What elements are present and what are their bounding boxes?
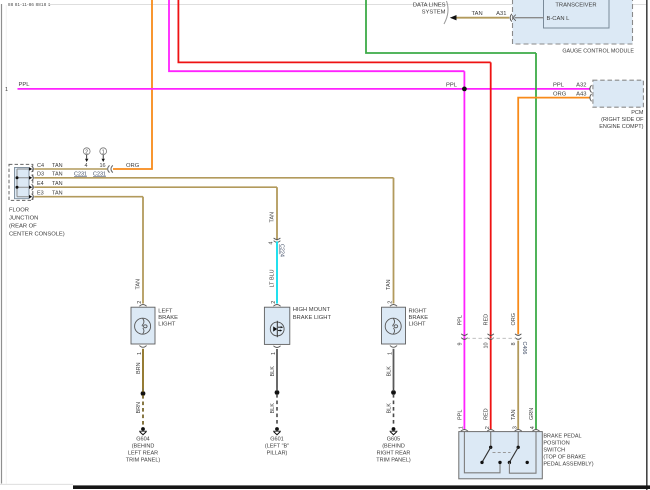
svg-text:RED: RED xyxy=(484,408,490,420)
svg-text:C4: C4 xyxy=(37,163,44,169)
svg-text:C231: C231 xyxy=(93,171,106,177)
svg-text:C231: C231 xyxy=(74,171,87,177)
svg-text:(REAR OF: (REAR OF xyxy=(9,224,37,230)
wire PPL from top xyxy=(169,0,464,71)
svg-text:A31: A31 xyxy=(496,11,506,17)
wire gray B-CAN L xyxy=(515,17,544,19)
connector C224 xyxy=(274,238,281,240)
svg-text:4: 4 xyxy=(268,242,274,245)
svg-text:3: 3 xyxy=(512,426,518,429)
svg-text:FLOOR: FLOOR xyxy=(9,208,29,214)
gauge control module box xyxy=(513,0,633,44)
wire PPL main horizontal xyxy=(18,88,590,90)
svg-text:8: 8 xyxy=(511,342,517,345)
svg-text:GRN: GRN xyxy=(529,408,535,420)
svg-text:2: 2 xyxy=(388,301,394,304)
svg-text:(BEHIND: (BEHIND xyxy=(382,444,405,450)
pin A31 connector xyxy=(510,14,512,22)
svg-text:BLK: BLK xyxy=(270,366,276,377)
pin D3 xyxy=(29,176,32,180)
svg-text:TAN: TAN xyxy=(52,172,63,178)
svg-text:DATA LINES: DATA LINES xyxy=(413,2,446,8)
svg-text:PCM: PCM xyxy=(631,110,644,116)
svg-text:D3: D3 xyxy=(37,172,44,178)
svg-text:PPL: PPL xyxy=(446,83,458,89)
svg-text:G601: G601 xyxy=(270,437,283,443)
svg-text:LEFT: LEFT xyxy=(158,308,173,314)
svg-text:PPL: PPL xyxy=(19,82,31,88)
svg-text:4: 4 xyxy=(530,426,536,429)
svg-text:BLK: BLK xyxy=(386,403,392,414)
switch interior xyxy=(464,432,500,473)
svg-text:TAN: TAN xyxy=(386,279,392,290)
pin A43 connector xyxy=(590,94,592,101)
wire GRN vertical to switch xyxy=(535,53,537,429)
svg-text:TRANSCEIVER: TRANSCEIVER xyxy=(555,2,596,8)
pin C4 xyxy=(29,167,32,171)
svg-text:PILLAR): PILLAR) xyxy=(267,451,288,457)
svg-text:POSITION: POSITION xyxy=(543,440,569,446)
svg-text:16: 16 xyxy=(99,163,105,169)
pin E4 xyxy=(29,185,32,189)
wire BLK dashed to ground xyxy=(276,388,278,427)
svg-text:TAN: TAN xyxy=(511,409,517,420)
svg-text:4: 4 xyxy=(84,163,87,169)
svg-text:E4: E4 xyxy=(37,181,44,187)
svg-text:BRAKE LIGHT: BRAKE LIGHT xyxy=(293,315,332,321)
pin 3 arc xyxy=(515,430,522,432)
svg-text:2: 2 xyxy=(271,301,277,304)
wire GRN from top xyxy=(366,0,536,53)
wire BLK below right light xyxy=(393,349,395,388)
svg-text:B-CAN L: B-CAN L xyxy=(547,16,571,22)
svg-text:BRN: BRN xyxy=(136,362,142,374)
svg-text:TAN: TAN xyxy=(52,181,63,187)
floor junction connector xyxy=(9,164,33,200)
node junction mid xyxy=(275,390,280,395)
svg-text:PPL: PPL xyxy=(553,83,565,89)
svg-text:ENGINE COMPT): ENGINE COMPT) xyxy=(599,124,643,130)
svg-text:BLK: BLK xyxy=(386,366,392,377)
svg-text:TAN: TAN xyxy=(52,163,63,169)
svg-text:BRAKE: BRAKE xyxy=(409,315,429,321)
svg-text:BRN: BRN xyxy=(136,402,142,414)
svg-text:SYSTEM: SYSTEM xyxy=(422,10,446,16)
wire TAN to gauge control module A31 xyxy=(456,17,509,19)
svg-text:TAN: TAN xyxy=(472,11,483,17)
arrow to data lines system xyxy=(450,15,457,20)
svg-text:G604: G604 xyxy=(136,437,149,443)
svg-text:JUNCTION: JUNCTION xyxy=(9,216,38,222)
wire TAN below C406 to switch xyxy=(517,341,519,430)
svg-text:1: 1 xyxy=(459,426,465,429)
pin 4 arc xyxy=(532,430,539,432)
svg-text:G605: G605 xyxy=(387,437,400,443)
svg-text:LEFT REAR: LEFT REAR xyxy=(128,451,158,457)
wire TAN D3 row xyxy=(34,177,393,179)
svg-text:2: 2 xyxy=(85,149,88,155)
ground G604 xyxy=(141,427,145,431)
switch S1 BRAKE PEDAL POSITION xyxy=(459,432,543,479)
svg-text:A32: A32 xyxy=(576,83,586,89)
svg-text:1: 1 xyxy=(102,149,105,155)
svg-text:E3: E3 xyxy=(37,191,44,197)
svg-text:LIGHT: LIGHT xyxy=(158,322,176,328)
wire RED vertical to switch xyxy=(490,62,492,429)
svg-text:9: 9 xyxy=(457,342,463,345)
PCM box xyxy=(593,80,644,107)
wire TAN E3 row xyxy=(34,196,143,198)
wire TAN E3 vertical to left brake light xyxy=(142,197,144,304)
svg-text:2: 2 xyxy=(137,301,143,304)
svg-text:ORG: ORG xyxy=(126,163,140,169)
svg-text:ORG: ORG xyxy=(511,313,517,326)
svg-text:CENTER CONSOLE): CENTER CONSOLE) xyxy=(9,232,65,238)
wire PPL vertical to switch xyxy=(463,71,465,429)
wire BRN dashed to ground xyxy=(142,389,144,427)
svg-text:TAN: TAN xyxy=(270,212,276,223)
svg-text:BRAKE PEDAL: BRAKE PEDAL xyxy=(543,433,581,439)
svg-text:1: 1 xyxy=(5,87,8,93)
node junction right xyxy=(391,390,396,395)
wire RED from top xyxy=(178,0,490,62)
wire TAN D3 vertical to right brake light xyxy=(393,178,395,304)
svg-text:TRIM PANEL): TRIM PANEL) xyxy=(376,458,411,464)
wire ORG vertical from top to C231 xyxy=(113,0,152,169)
svg-text:(RIGHT SIDE OF: (RIGHT SIDE OF xyxy=(601,117,644,123)
wire BRN below left light xyxy=(142,349,144,389)
svg-text:88 81-11-86 8818 1: 88 81-11-86 8818 1 xyxy=(8,2,51,7)
svg-text:LT BLU: LT BLU xyxy=(270,269,276,287)
svg-text:PPL: PPL xyxy=(457,315,463,325)
wire BLK below high mount light xyxy=(276,349,278,388)
svg-text:LIGHT: LIGHT xyxy=(409,322,427,328)
bracket xyxy=(444,1,448,24)
wire TAN E4 row xyxy=(34,186,277,188)
svg-text:C406: C406 xyxy=(521,342,527,355)
svg-text:SWITCH: SWITCH xyxy=(543,447,565,453)
svg-text:ORG: ORG xyxy=(553,91,567,97)
wire TAN C4 row xyxy=(34,168,107,170)
svg-text:(BEHIND: (BEHIND xyxy=(132,444,155,450)
svg-text:A43: A43 xyxy=(576,91,586,97)
node PPL junction xyxy=(462,87,467,92)
pin A32 connector xyxy=(590,85,592,92)
svg-text:TAN: TAN xyxy=(136,279,142,290)
ground G601 xyxy=(275,427,279,431)
svg-text:RIGHT: RIGHT xyxy=(409,308,427,314)
wire LT BLU to high mount light xyxy=(276,241,278,303)
svg-text:PEDAL ASSEMBLY): PEDAL ASSEMBLY) xyxy=(543,461,593,467)
svg-text:TRIM PANEL): TRIM PANEL) xyxy=(126,458,161,464)
callout 2 circled xyxy=(83,148,90,155)
callout 1 circled xyxy=(100,148,107,155)
svg-text:TAN: TAN xyxy=(52,191,63,197)
svg-text:RIGHT REAR: RIGHT REAR xyxy=(377,451,411,457)
svg-text:10: 10 xyxy=(484,342,490,348)
wire TAN E4 vertical to C224 xyxy=(276,187,278,240)
connector C231 symbols xyxy=(108,165,110,172)
pin E3 xyxy=(29,195,32,199)
svg-text:2: 2 xyxy=(485,426,491,429)
svg-text:RED: RED xyxy=(484,314,490,326)
svg-text:(LEFT "B": (LEFT "B" xyxy=(265,444,289,450)
node junction left xyxy=(141,391,146,396)
svg-text:PPL: PPL xyxy=(457,410,463,420)
svg-text:BRAKE: BRAKE xyxy=(158,315,178,321)
wire ORG from PCM A43 xyxy=(518,98,589,335)
C406 dashed link xyxy=(467,337,517,339)
svg-text:HIGH MOUNT: HIGH MOUNT xyxy=(293,307,331,313)
svg-text:BLK: BLK xyxy=(270,403,276,414)
svg-text:(TOP OF BRAKE: (TOP OF BRAKE xyxy=(543,454,586,460)
pin 2 arc xyxy=(487,430,494,432)
ground G605 xyxy=(392,427,396,431)
transceiver box U1 xyxy=(544,0,610,28)
wire BLK dashed to ground xyxy=(393,388,395,427)
svg-text:GAUGE CONTROL MODULE: GAUGE CONTROL MODULE xyxy=(562,48,634,54)
pin 1 arc xyxy=(461,430,468,432)
